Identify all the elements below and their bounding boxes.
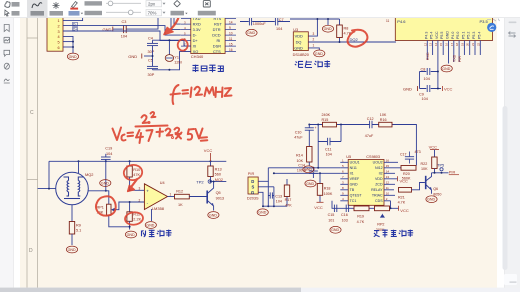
svg-text:R19: R19 bbox=[357, 215, 364, 219]
rail B bbox=[340, 125, 342, 142]
eraser icon bbox=[174, 0, 181, 7]
svg-text:CTS: CTS bbox=[213, 49, 221, 54]
svg-text:C11: C11 bbox=[325, 147, 332, 151]
svg-text:70%: 70% bbox=[148, 10, 157, 15]
svg-text:C17: C17 bbox=[400, 153, 406, 157]
svg-text:14: 14 bbox=[434, 42, 438, 46]
capacitor C7 bbox=[258, 21, 290, 23]
junction at crystal GND bbox=[152, 55, 154, 57]
svg-text:12M: 12M bbox=[174, 61, 181, 65]
junctions on rail bbox=[78, 160, 80, 162]
ground bbox=[66, 246, 77, 253]
svg-text:P5.4: P5.4 bbox=[477, 32, 481, 39]
svg-text:R16: R16 bbox=[380, 118, 387, 122]
vertical pin numbers below block bbox=[423, 42, 480, 46]
resistor R21 bbox=[399, 188, 412, 193]
marker arrow at CH340 bbox=[168, 11, 181, 32]
svg-text:DQ2: DQ2 bbox=[350, 37, 359, 42]
title: pyroelectric detection bbox=[374, 229, 413, 237]
resistor R9 bbox=[69, 222, 74, 235]
svg-text:11: 11 bbox=[229, 37, 233, 41]
svg-text:UOU2: UOU2 bbox=[373, 161, 383, 165]
capacitor C3 bbox=[124, 25, 127, 33]
svg-text:8050: 8050 bbox=[433, 192, 441, 196]
wire bbox=[113, 28, 123, 30]
svg-text:16: 16 bbox=[229, 48, 233, 52]
svg-text:1000uF: 1000uF bbox=[253, 22, 267, 26]
svg-text:C16: C16 bbox=[341, 213, 348, 217]
marker text f=12MHZ bbox=[171, 85, 232, 104]
resistor R13 bbox=[210, 161, 212, 166]
svg-text:U4: U4 bbox=[160, 181, 165, 185]
svg-text:P5.5: P5.5 bbox=[440, 32, 444, 39]
marker circle at R10 bbox=[123, 164, 143, 182]
ground bbox=[330, 226, 341, 233]
svg-text:+: + bbox=[315, 126, 317, 130]
svg-text:Q5: Q5 bbox=[216, 191, 221, 195]
svg-text:47uF: 47uF bbox=[294, 136, 303, 140]
wire DQ long to MCU bbox=[308, 41, 396, 43]
wire collector node bbox=[432, 172, 449, 174]
svg-text:MQ2: MQ2 bbox=[85, 172, 93, 177]
svg-text:100K: 100K bbox=[324, 192, 333, 196]
ground bbox=[67, 53, 78, 60]
svg-text:104: 104 bbox=[422, 97, 428, 101]
svg-text:D+: D+ bbox=[193, 38, 199, 43]
resistor R11 bbox=[129, 202, 131, 212]
svg-text:P4.6: P4.6 bbox=[397, 19, 406, 24]
marker arrow at LM358 input bbox=[128, 179, 137, 191]
node D+ label bbox=[72, 28, 77, 32]
floating blue badge bbox=[487, 19, 500, 33]
thickness label (row1) bbox=[85, 1, 103, 5]
wire left drop to sensor bbox=[38, 161, 56, 188]
svg-text:GND: GND bbox=[446, 31, 450, 39]
wires from sensor bbox=[258, 168, 287, 206]
IC U1 CH340 bbox=[191, 12, 225, 54]
opacity label (row2) bbox=[85, 11, 103, 15]
svg-text:TXD: TXD bbox=[453, 54, 457, 62]
svg-text:U5: U5 bbox=[346, 155, 351, 159]
resistor R17 bbox=[286, 179, 288, 206]
svg-text:RST: RST bbox=[214, 21, 222, 26]
svg-text:C: C bbox=[30, 110, 34, 116]
draw-curve button (active) bbox=[27, 0, 48, 17]
svg-text:2: 2 bbox=[313, 38, 315, 42]
svg-text:PIR: PIR bbox=[458, 56, 462, 62]
svg-text:ZCD: ZCD bbox=[375, 183, 383, 187]
svg-text:VDD: VDD bbox=[295, 34, 303, 39]
svg-text:+: + bbox=[146, 188, 149, 193]
svg-text:TP5: TP5 bbox=[437, 164, 444, 168]
svg-text:4.7K: 4.7K bbox=[398, 201, 406, 205]
svg-text:DS18B20: DS18B20 bbox=[293, 53, 309, 57]
svg-text:C7: C7 bbox=[279, 18, 284, 22]
svg-text:20: 20 bbox=[466, 42, 470, 46]
node VCC bottom bbox=[398, 206, 400, 211]
svg-text:12: 12 bbox=[423, 42, 427, 46]
svg-text:C12: C12 bbox=[367, 117, 374, 121]
svg-text:VCC: VCC bbox=[314, 205, 323, 210]
marker circle at XI pin bbox=[178, 39, 188, 50]
svg-text:11: 11 bbox=[386, 186, 389, 190]
svg-text:VREF: VREF bbox=[350, 177, 360, 181]
svg-text:DQ: DQ bbox=[296, 40, 302, 45]
svg-text:VDD: VDD bbox=[375, 177, 383, 181]
svg-text:TP2: TP2 bbox=[196, 180, 204, 185]
svg-text:QTEST: QTEST bbox=[350, 194, 363, 198]
svg-text:CDS: CDS bbox=[375, 199, 383, 203]
ground bbox=[305, 180, 316, 187]
bookmark icon bbox=[4, 25, 9, 32]
svg-text:6: 6 bbox=[58, 46, 60, 50]
svg-text:16: 16 bbox=[386, 159, 390, 163]
svg-text:VCC: VCC bbox=[204, 148, 213, 153]
svg-text:3.3V: 3.3V bbox=[193, 27, 201, 32]
svg-text:103: 103 bbox=[342, 218, 348, 222]
svg-text:11: 11 bbox=[386, 19, 390, 23]
svg-text:R20: R20 bbox=[403, 172, 410, 176]
dropdown 70% bbox=[146, 10, 162, 16]
svg-text:1: 1 bbox=[313, 44, 315, 48]
ground bbox=[426, 196, 437, 203]
transistor Q5 bbox=[206, 191, 208, 204]
svg-text:2: 2 bbox=[58, 25, 60, 29]
svg-text:15: 15 bbox=[229, 42, 233, 46]
svg-text:13: 13 bbox=[386, 175, 390, 179]
ground bbox=[314, 50, 325, 57]
svg-text:R13: R13 bbox=[215, 167, 222, 171]
wire op-amp output bbox=[168, 196, 175, 198]
svg-text:VCC: VCC bbox=[400, 179, 409, 184]
svg-text:II1: II1 bbox=[350, 172, 354, 176]
svg-text:DSR: DSR bbox=[213, 43, 221, 48]
svg-text:VCC: VCC bbox=[400, 208, 409, 213]
svg-text:UOU1: UOU1 bbox=[350, 161, 360, 165]
wire RXD stub up bbox=[174, 18, 181, 25]
svg-text:4: 4 bbox=[58, 35, 60, 39]
svg-text:30P: 30P bbox=[148, 50, 155, 54]
svg-text:9: 9 bbox=[229, 26, 231, 30]
svg-text:10: 10 bbox=[386, 192, 390, 196]
svg-text:R21: R21 bbox=[398, 195, 405, 199]
svg-text:D+: D+ bbox=[73, 28, 77, 32]
sheet frame border lines bbox=[27, 18, 38, 288]
ground stub on rail bbox=[327, 19, 329, 25]
svg-text:R14: R14 bbox=[296, 154, 303, 158]
svg-text:47K: 47K bbox=[285, 204, 292, 208]
marker circle at RP1 bbox=[96, 196, 116, 215]
svg-text:17: 17 bbox=[450, 42, 454, 46]
svg-text:G: G bbox=[251, 190, 254, 195]
rail A bbox=[317, 125, 319, 168]
comment icon bbox=[4, 50, 10, 56]
svg-text:GND: GND bbox=[294, 45, 303, 50]
svg-text:II2: II2 bbox=[379, 172, 383, 176]
chip left pin stubs bbox=[340, 162, 348, 201]
marker circle at DQ2 bbox=[348, 30, 368, 47]
ground under GND pin bbox=[441, 65, 452, 72]
svg-text:LM358: LM358 bbox=[152, 206, 165, 211]
svg-text:TB: TB bbox=[350, 188, 355, 192]
ground bbox=[125, 231, 136, 238]
svg-text:1: 1 bbox=[170, 192, 172, 196]
svg-text:R8: R8 bbox=[344, 27, 349, 31]
ground bbox=[246, 29, 257, 36]
svg-text:2.2K: 2.2K bbox=[133, 217, 141, 221]
resistor R8 pull-up bbox=[339, 19, 341, 42]
svg-text:47K: 47K bbox=[133, 173, 140, 177]
junctions on node row bbox=[308, 124, 310, 126]
gas sensor MQ2 bbox=[56, 172, 89, 205]
svg-text:P4.3: P4.3 bbox=[424, 32, 428, 39]
svg-text:104: 104 bbox=[326, 153, 332, 157]
svg-text:104: 104 bbox=[121, 34, 127, 38]
svg-text:P4.0: P4.0 bbox=[451, 32, 455, 39]
svg-text:21: 21 bbox=[471, 42, 475, 46]
svg-text:D-: D- bbox=[73, 23, 76, 27]
svg-text:10: 10 bbox=[229, 31, 233, 35]
wire crystal chain bbox=[144, 40, 191, 70]
svg-text:P5.2: P5.2 bbox=[467, 32, 471, 39]
svg-text:R15: R15 bbox=[322, 118, 329, 122]
svg-text:C8: C8 bbox=[421, 68, 426, 72]
wires from connector bbox=[63, 18, 83, 53]
svg-text:GND: GND bbox=[350, 183, 358, 187]
resistor R19 bbox=[354, 206, 369, 211]
svg-text:5: 5 bbox=[58, 41, 60, 45]
svg-text:C9: C9 bbox=[419, 92, 424, 96]
svg-text:P5.3: P5.3 bbox=[472, 32, 476, 39]
wire L2 to chip bbox=[274, 172, 340, 174]
svg-text:R9: R9 bbox=[76, 224, 81, 228]
svg-text:R10: R10 bbox=[133, 168, 140, 172]
capacitor C11 bbox=[318, 141, 341, 143]
svg-text:P5.0: P5.0 bbox=[456, 32, 460, 39]
wire from C3 to vertical riser bbox=[126, 18, 158, 30]
svg-text:104: 104 bbox=[424, 77, 430, 81]
svg-text:VCC: VCC bbox=[435, 31, 439, 39]
svg-text:P5.4: P5.4 bbox=[430, 32, 434, 39]
svg-text:PIR: PIR bbox=[248, 171, 255, 176]
svg-text:3: 3 bbox=[313, 32, 315, 36]
svg-text:P5.1: P5.1 bbox=[461, 32, 465, 39]
svg-text:30P: 30P bbox=[148, 73, 155, 77]
svg-text:C3: C3 bbox=[122, 20, 127, 24]
svg-text:D: D bbox=[251, 179, 254, 184]
pin stubs right of CH340 bbox=[225, 19, 236, 52]
title: serial communication bbox=[193, 65, 224, 73]
svg-text:C10: C10 bbox=[295, 131, 302, 135]
svg-text:R17: R17 bbox=[285, 198, 292, 202]
svg-text:Q6: Q6 bbox=[433, 187, 438, 191]
svg-text:4.7K: 4.7K bbox=[357, 220, 365, 224]
capacitor C15 bbox=[334, 205, 336, 212]
svg-text:C15: C15 bbox=[328, 213, 335, 217]
svg-text:NI12: NI12 bbox=[375, 166, 383, 170]
wire bottom row bbox=[332, 201, 399, 209]
svg-text:10K: 10K bbox=[297, 159, 304, 163]
junction bbox=[72, 41, 74, 43]
pin stubs left of CH340 bbox=[181, 19, 191, 52]
thumbnail icon bbox=[4, 37, 10, 43]
svg-text:3: 3 bbox=[139, 187, 141, 191]
node VCC at VDD pin bbox=[397, 176, 399, 181]
svg-text:13: 13 bbox=[429, 42, 433, 46]
node VCC under R18 bbox=[317, 201, 324, 203]
svg-text:473: 473 bbox=[415, 150, 421, 154]
svg-text:C4: C4 bbox=[148, 36, 153, 40]
svg-text:101: 101 bbox=[328, 218, 334, 222]
wire sensor output bbox=[88, 191, 109, 204]
slider row2 bbox=[106, 11, 141, 13]
svg-text:MQ2: MQ2 bbox=[215, 178, 223, 182]
svg-text:R18: R18 bbox=[324, 186, 331, 190]
marker circle at R11 bbox=[124, 211, 143, 225]
svg-text:9013: 9013 bbox=[216, 196, 224, 200]
title: temperature detection bbox=[295, 61, 331, 68]
svg-text:104: 104 bbox=[276, 200, 282, 204]
draw-line button bbox=[53, 2, 60, 9]
svg-text:C13: C13 bbox=[275, 194, 282, 198]
chip right pin stubs bbox=[384, 162, 401, 201]
svg-text:RXD: RXD bbox=[193, 21, 201, 26]
svg-text:3: 3 bbox=[58, 30, 60, 34]
title: smoke detection bbox=[142, 230, 172, 238]
svg-text:RELAY: RELAY bbox=[371, 188, 383, 192]
wire sensor top bbox=[78, 161, 80, 173]
ground bbox=[257, 209, 268, 216]
wire top rail bbox=[49, 160, 226, 162]
svg-text:Y1: Y1 bbox=[174, 55, 179, 59]
dropdown 2px bbox=[146, 1, 162, 7]
svg-text:10K: 10K bbox=[380, 113, 387, 117]
color pen icon with red bar bbox=[72, 2, 78, 8]
wire top node row bbox=[309, 125, 416, 166]
svg-text:VCC: VCC bbox=[444, 86, 453, 91]
svg-text:TRIAC: TRIAC bbox=[372, 194, 383, 198]
marker formula Vc = 2.2 / 4.7+2.2 x 5V = bbox=[113, 112, 208, 143]
svg-text:14: 14 bbox=[229, 20, 233, 24]
svg-text:104: 104 bbox=[106, 152, 112, 156]
svg-text:C19: C19 bbox=[105, 147, 112, 151]
svg-text:DCD: DCD bbox=[212, 32, 221, 37]
svg-text:NI11: NI11 bbox=[350, 166, 357, 170]
svg-text:12: 12 bbox=[386, 181, 390, 185]
capacitor C9 bbox=[420, 88, 442, 90]
vertical pin names inside block bbox=[424, 31, 481, 39]
ground bbox=[322, 25, 333, 32]
svg-text:S: S bbox=[252, 185, 255, 190]
crystal Y1 bbox=[165, 55, 173, 62]
capacitor C16 bbox=[346, 205, 348, 212]
svg-text:D: D bbox=[29, 248, 33, 254]
svg-text:R12: R12 bbox=[176, 190, 183, 194]
svg-text:14: 14 bbox=[386, 170, 390, 174]
svg-text:19: 19 bbox=[460, 42, 464, 46]
resistor R18 bbox=[319, 173, 321, 202]
pin wires below MCU bbox=[427, 41, 480, 89]
svg-text:47uF: 47uF bbox=[365, 134, 374, 138]
node D- label bbox=[72, 23, 77, 27]
svg-text:TC1: TC1 bbox=[350, 199, 357, 203]
svg-text:15: 15 bbox=[386, 164, 390, 168]
hand tool icon + label bbox=[5, 2, 10, 8]
resistor R10 bbox=[129, 161, 131, 166]
svg-text:RP2: RP2 bbox=[377, 222, 384, 226]
svg-text:RP1: RP1 bbox=[97, 205, 104, 209]
svg-text:1K: 1K bbox=[178, 203, 183, 207]
svg-text:2px: 2px bbox=[148, 1, 156, 6]
select cursor icon + label bbox=[5, 10, 9, 16]
wire sensor bottom to R9 bbox=[71, 205, 73, 222]
svg-text:D203S: D203S bbox=[247, 197, 259, 201]
svg-text:GND: GND bbox=[128, 54, 137, 59]
wire D+ long bbox=[81, 31, 181, 41]
node VCC label right bbox=[442, 86, 444, 91]
svg-text:560: 560 bbox=[215, 172, 221, 176]
capacitor C13 bbox=[268, 181, 274, 206]
wire left rail to C9 bbox=[419, 72, 421, 89]
svg-text:104: 104 bbox=[276, 27, 282, 31]
slider row1 bbox=[106, 2, 141, 4]
ground bbox=[208, 212, 219, 219]
resistor R14 bbox=[307, 147, 312, 163]
svg-text:R22: R22 bbox=[421, 162, 428, 166]
svg-text:RI: RI bbox=[217, 38, 221, 43]
svg-text:XI: XI bbox=[193, 43, 197, 48]
svg-text:1: 1 bbox=[58, 19, 60, 23]
wire VCC rail bbox=[290, 18, 340, 20]
svg-text:VCC: VCC bbox=[429, 145, 438, 150]
exit edit icon bbox=[203, 1, 210, 7]
wire VDD riser bbox=[308, 19, 317, 36]
svg-text:CH340: CH340 bbox=[191, 54, 204, 59]
ground bbox=[100, 180, 111, 187]
wire D- long bbox=[81, 26, 181, 35]
junction DQ net bbox=[339, 41, 341, 43]
wire L1 to chip bbox=[268, 167, 340, 169]
svg-text:GND: GND bbox=[403, 86, 412, 91]
junction bbox=[316, 18, 318, 20]
svg-text:PIR: PIR bbox=[449, 170, 456, 175]
svg-text:5.1: 5.1 bbox=[76, 229, 81, 233]
transistor Q6 bbox=[425, 176, 427, 189]
wire GND pin bbox=[308, 48, 319, 50]
svg-text:2: 2 bbox=[139, 198, 141, 202]
svg-text:15: 15 bbox=[439, 42, 443, 46]
ground bbox=[145, 222, 156, 229]
svg-text:DTR: DTR bbox=[213, 27, 221, 32]
svg-text:D-: D- bbox=[193, 32, 198, 37]
potentiometer RP2 bbox=[375, 206, 390, 211]
wire 3.3V stub bbox=[171, 18, 181, 30]
ground bbox=[303, 166, 314, 173]
svg-text:RXD: RXD bbox=[426, 52, 430, 60]
svg-text:22: 22 bbox=[476, 42, 480, 46]
svg-text:18: 18 bbox=[455, 42, 459, 46]
connector J1 (6-pin header) bbox=[47, 16, 63, 51]
svg-text:CS9803: CS9803 bbox=[366, 155, 380, 159]
svg-text:240K: 240K bbox=[322, 113, 331, 117]
svg-text:10K: 10K bbox=[421, 167, 428, 171]
resistor R22 bbox=[432, 157, 437, 169]
resistor R20 bbox=[401, 166, 416, 171]
signature icon bbox=[4, 79, 10, 83]
attachment icon bbox=[4, 63, 9, 69]
svg-text:16: 16 bbox=[445, 42, 449, 46]
